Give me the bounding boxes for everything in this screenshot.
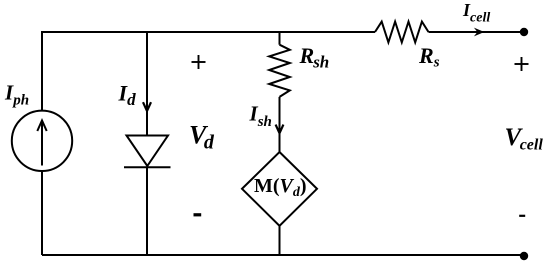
current source Iph arrow [37,121,46,166]
wire: top rail left (top-left corner to Rs) [42,32,375,110]
svg-text:Rsh: Rsh [299,43,330,72]
controlled source M(Vd) diamond [242,152,317,226]
wire: diode branch upper [146,32,148,136]
current arrow Ish [276,125,284,134]
svg-text:Icell: Icell [462,0,490,26]
label + (Vd) [192,55,206,69]
node: output terminal bottom (-) [520,252,528,260]
label - (Vd) [194,213,202,216]
wire: top rail right (Rs to output node) [429,31,525,33]
svg-text:Vcell: Vcell [505,124,544,153]
resistor Rsh zigzag [269,45,290,97]
wire: left vertical below current source [41,172,43,256]
diode D triangle [127,136,169,167]
label - (Vcell) [519,215,525,217]
label + (Vcell) [515,57,529,71]
resistor Rs zigzag [375,22,429,43]
wire: bottom rail [42,254,524,256]
wire: shunt branch upper (to Rsh) [279,32,281,45]
diode D cathode bar [124,166,171,168]
svg-text:Iph: Iph [4,80,29,108]
node: output terminal top (+) [520,28,528,36]
svg-text:Vd: Vd [189,120,215,153]
wire: shunt branch middle (Rsh to diamond) [279,97,281,152]
current source Iph (circle) [12,111,72,171]
svg-text:Rs: Rs [418,43,440,71]
current arrow Id [143,102,151,111]
svg-text:M(Vd): M(Vd) [254,175,307,200]
current arrow Icell [474,28,484,37]
wire: diode branch lower [146,167,148,256]
wire: shunt branch lower (diamond to bottom rail) [279,226,281,255]
svg-text:Ish: Ish [249,102,272,131]
svg-text:Id: Id [118,81,137,110]
